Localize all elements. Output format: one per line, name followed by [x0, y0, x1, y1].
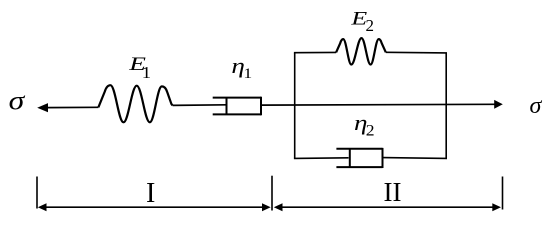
svg-text:2: 2: [366, 16, 375, 35]
svg-text:I: I: [146, 178, 155, 209]
svg-text:σ: σ: [530, 93, 543, 119]
svg-text:2: 2: [366, 122, 375, 139]
svg-text:σ: σ: [9, 86, 26, 115]
svg-text:1: 1: [243, 66, 252, 82]
svg-text:1: 1: [142, 63, 152, 82]
svg-text:II: II: [384, 177, 402, 207]
